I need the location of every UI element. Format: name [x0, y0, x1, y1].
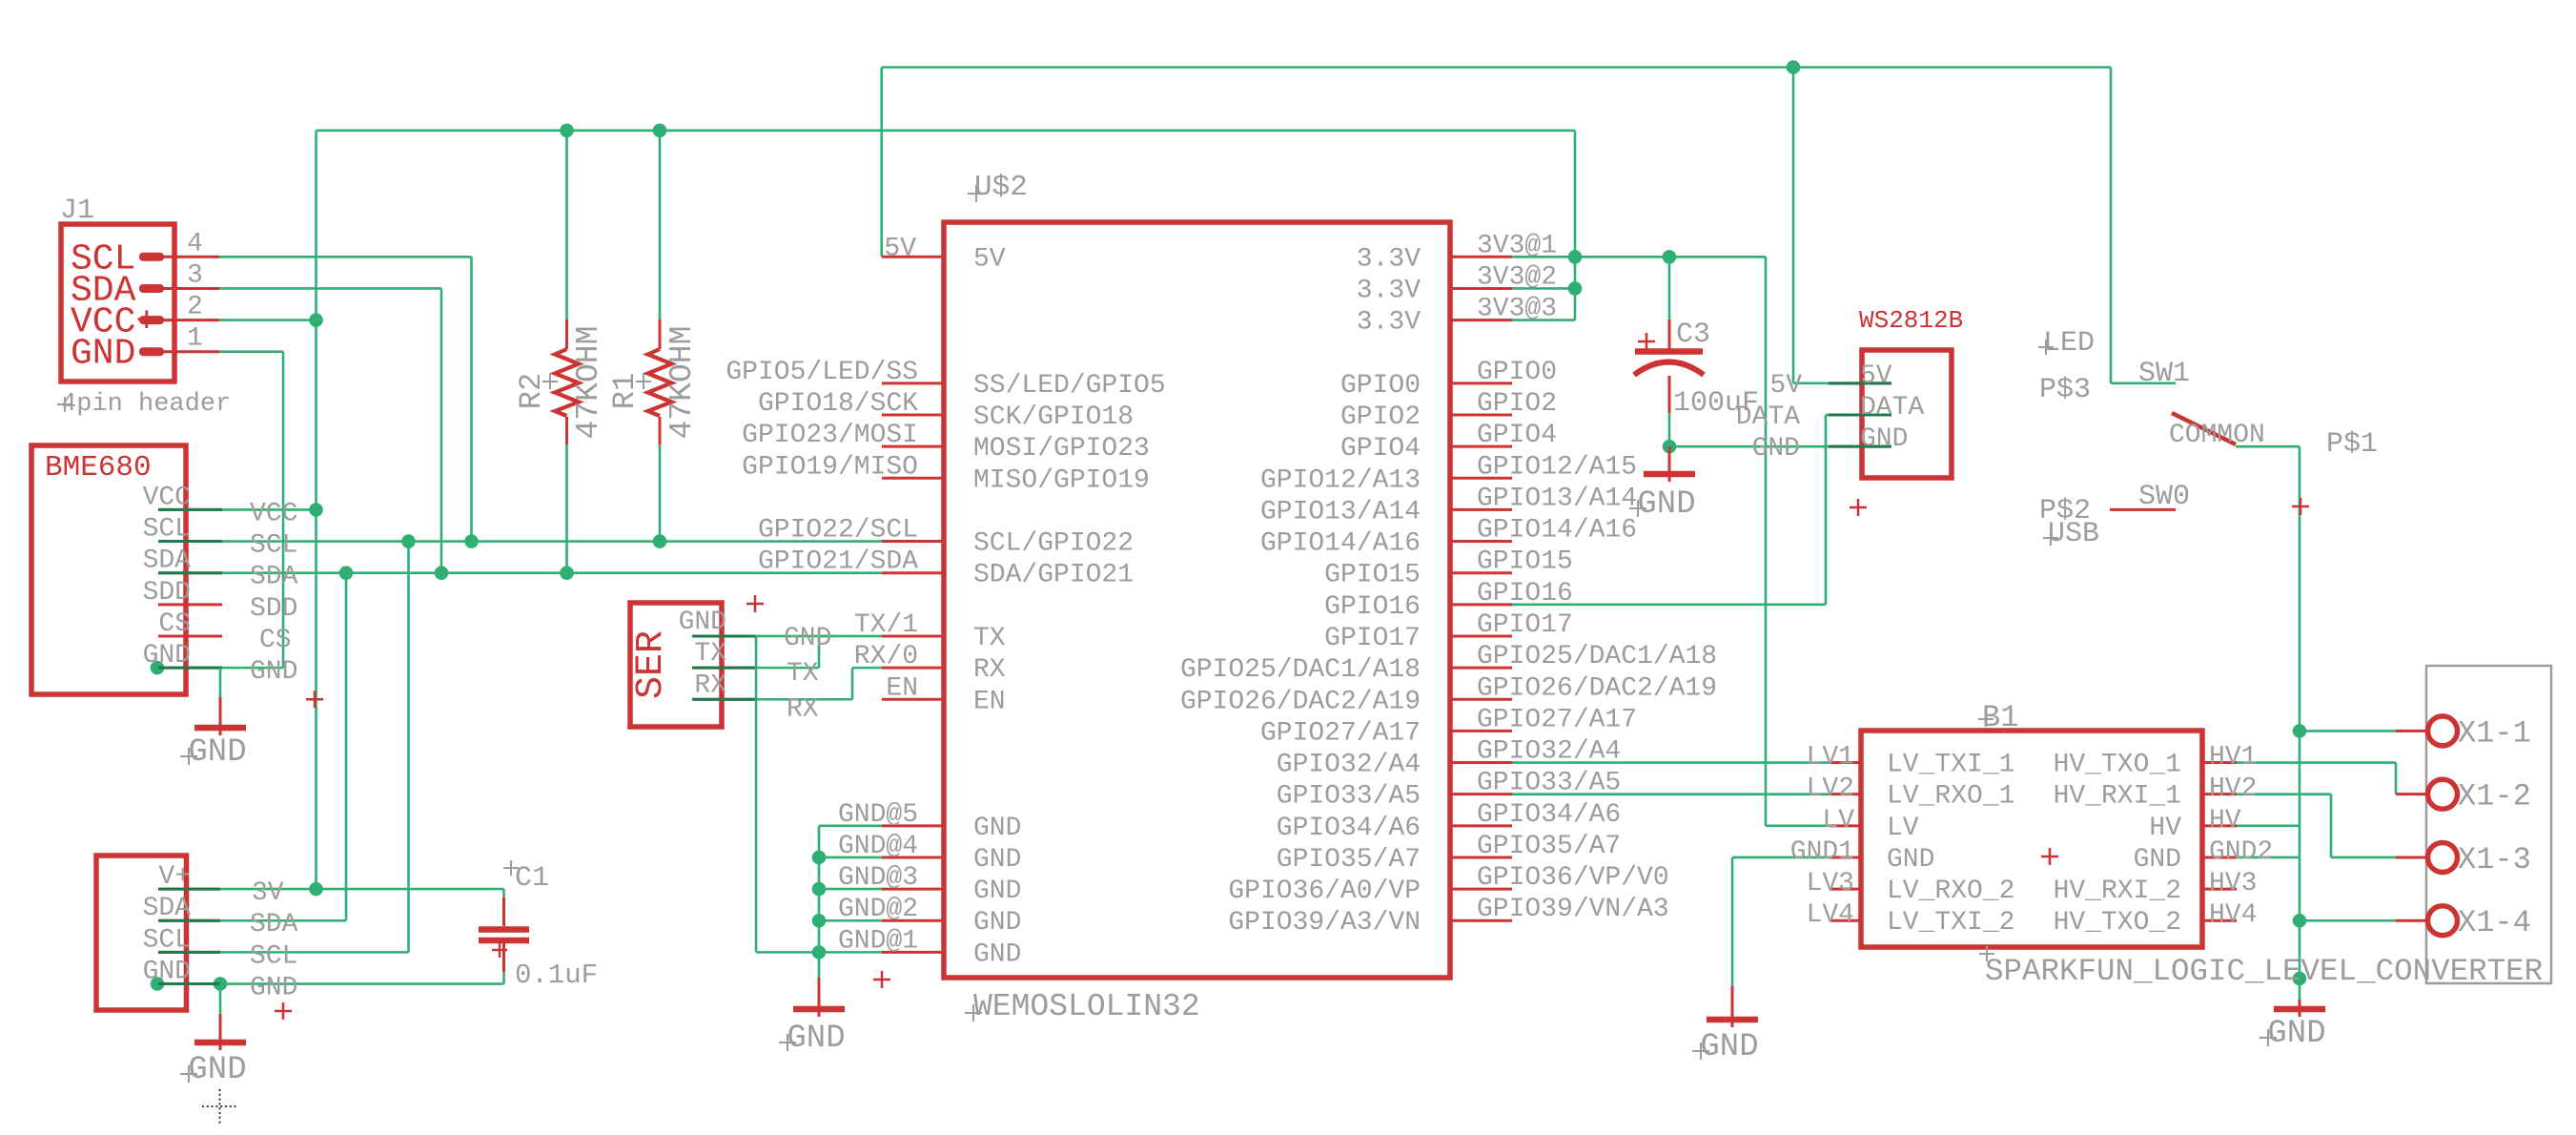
- junction P$1 at X1-1: [2293, 724, 2307, 738]
- resistor R2 47KOHM: [514, 320, 606, 444]
- wire SER TX jog up: [818, 636, 821, 668]
- junction GND@2: [812, 914, 827, 928]
- led WS2812B: [1736, 306, 1963, 516]
- wire R2 top lead to 3.3V bus: [565, 131, 568, 320]
- wire GND@4 pin: [819, 856, 882, 859]
- svg-text:GPIO33/A5: GPIO33/A5: [1277, 782, 1421, 812]
- ground symbol of P$1 bus: [2259, 1000, 2326, 1052]
- wire LED net to SW1 throw: [2111, 382, 2176, 385]
- U$2 left pin GPIO19/MISO: [882, 477, 944, 480]
- svg-text:GPIO12/A13: GPIO12/A13: [1260, 465, 1421, 495]
- svg-text:GPIO23/MOSI: GPIO23/MOSI: [742, 421, 918, 450]
- J1 pin 2 (VCC+): [139, 316, 164, 324]
- switch lever COMMON: [2172, 413, 2236, 444]
- svg-text:GPIO32/A4: GPIO32/A4: [1477, 737, 1621, 767]
- svg-text:GPIO36/A0/VP: GPIO36/A0/VP: [1228, 877, 1421, 906]
- svg-text:CS: CS: [158, 609, 191, 639]
- switch SW0 throw pin: [2110, 508, 2176, 511]
- svg-text:SDA: SDA: [250, 563, 298, 592]
- lower sensor pin SDA: [158, 919, 220, 922]
- U$2 left pin GND@3: [882, 888, 944, 891]
- junction 3.3V bus at R1: [653, 124, 667, 138]
- B1 left pin LV3: [1830, 888, 1861, 891]
- lower sensor pin SCL: [158, 951, 220, 954]
- junction SCL at R1 bottom: [653, 534, 667, 548]
- svg-text:LV_TXI_1: LV_TXI_1: [1887, 751, 2014, 780]
- svg-text:GPIO32/A4: GPIO32/A4: [1277, 751, 1421, 780]
- wire 3.3V bus horizontal: [317, 130, 1576, 133]
- wire J1 GND down to BME680 GND row: [282, 352, 285, 668]
- B1 left pin LV4: [1830, 919, 1861, 922]
- svg-text:GND: GND: [2267, 1016, 2325, 1052]
- svg-text:GPIO13/A14: GPIO13/A14: [1260, 497, 1421, 526]
- svg-text:RX: RX: [694, 671, 726, 700]
- B1 right pin GND2: [2202, 856, 2237, 858]
- svg-text:HV2: HV2: [2209, 774, 2257, 804]
- svg-text:C3: C3: [1676, 319, 1710, 351]
- ground symbol under U$2: [779, 978, 846, 1057]
- wire C3 top lead from 3V3 bus: [1668, 257, 1671, 320]
- lower sensor pin GND: [158, 982, 220, 985]
- svg-text:GND2: GND2: [2209, 837, 2273, 867]
- connector J1 (4pin header): [57, 195, 231, 419]
- svg-text:3V3@3: 3V3@3: [1477, 295, 1557, 324]
- SER pin GND: [692, 634, 755, 637]
- svg-text:DATA: DATA: [1860, 393, 1924, 423]
- svg-text:GPIO2: GPIO2: [1340, 402, 1421, 432]
- U$2 right pin 3V3@1: [1449, 256, 1512, 258]
- svg-text:VCC: VCC: [143, 483, 191, 512]
- U$2 left pin EN: [882, 698, 944, 701]
- svg-text:GPIO12/A15: GPIO12/A15: [1477, 452, 1637, 482]
- B1 left pin GND1: [1830, 856, 1861, 858]
- wire B1 GND2 right: [2237, 856, 2300, 859]
- svg-text:GND@3: GND@3: [838, 863, 918, 893]
- svg-text:1: 1: [187, 324, 203, 354]
- svg-text:LV3: LV3: [1807, 869, 1854, 898]
- svg-text:GPIO27/A17: GPIO27/A17: [1477, 705, 1637, 734]
- svg-text:GPIO19/MISO: GPIO19/MISO: [742, 452, 918, 482]
- svg-text:GPIO34/A6: GPIO34/A6: [1477, 800, 1621, 830]
- svg-text:USB: USB: [2048, 518, 2099, 550]
- svg-text:TX: TX: [694, 639, 726, 669]
- U$2 right pin GPIO4: [1449, 445, 1512, 448]
- svg-text:SDA/GPIO21: SDA/GPIO21: [973, 561, 1134, 590]
- connector X1: [2396, 666, 2551, 983]
- U$2 right pin 3V3@3: [1449, 319, 1512, 321]
- origin cross B1: [2041, 848, 2058, 865]
- svg-text:SDD: SDD: [250, 594, 297, 624]
- U$2 right pin GPIO15: [1449, 571, 1512, 574]
- svg-text:GND: GND: [188, 734, 246, 771]
- wire SER RX jog up: [851, 668, 854, 699]
- origin cross WS2812B: [1850, 499, 1867, 516]
- wire J1 GND pin right: [219, 350, 283, 353]
- svg-text:SCL: SCL: [250, 531, 297, 561]
- U$2 left pin GPIO22/SCL: [882, 540, 944, 543]
- svg-text:GND: GND: [250, 657, 297, 687]
- svg-text:HV_TXO_1: HV_TXO_1: [2054, 751, 2181, 780]
- wire HV2 jog down: [2330, 794, 2333, 857]
- svg-text:GND: GND: [71, 334, 135, 375]
- svg-text:SW0: SW0: [2138, 481, 2190, 513]
- X1 pad X1-2: [2396, 793, 2428, 795]
- svg-text:GPIO39/A3/VN: GPIO39/A3/VN: [1228, 908, 1421, 938]
- svg-text:GPIO13/A14: GPIO13/A14: [1477, 484, 1637, 513]
- junction C3 bottom / GND net: [1663, 440, 1677, 454]
- svg-text:MOSI/GPIO23: MOSI/GPIO23: [973, 434, 1150, 464]
- svg-text:LV2: LV2: [1807, 774, 1854, 804]
- junction SCL at x=494.5: [464, 534, 479, 548]
- svg-text:GPIO4: GPIO4: [1477, 421, 1557, 450]
- junction GND@3: [812, 882, 827, 897]
- svg-text:GND: GND: [973, 845, 1021, 875]
- wire R2 bottom lead to SDA: [565, 444, 568, 573]
- wire GND@3 pin: [819, 888, 882, 891]
- junction GND@4: [812, 851, 827, 865]
- svg-text:GND: GND: [973, 908, 1021, 938]
- svg-text:GPIO17: GPIO17: [1477, 610, 1573, 640]
- svg-text:GPIO22/SCL: GPIO22/SCL: [758, 516, 918, 546]
- wire X1-1 row: [2300, 730, 2396, 733]
- svg-text:X1-1: X1-1: [2458, 715, 2531, 751]
- svg-text:GPIO39/VN/A3: GPIO39/VN/A3: [1477, 895, 1669, 924]
- svg-text:GPIO17: GPIO17: [1324, 624, 1421, 653]
- svg-text:GPIO26/DAC2/A19: GPIO26/DAC2/A19: [1180, 687, 1421, 716]
- wire B1 HV1 right: [2237, 761, 2396, 764]
- capacitor C1 0.1uF: [479, 860, 598, 991]
- SER pin TX: [692, 667, 755, 670]
- U$2 left pin GPIO21/SDA: [882, 571, 944, 574]
- module B1 SPARKFUN_LOGIC_LEVEL_CONVERTER: [1790, 700, 2543, 989]
- svg-text:GPIO2: GPIO2: [1477, 389, 1557, 419]
- wire 3V3@3 pin to vertical: [1512, 319, 1575, 321]
- X1 pad X1-3: [2396, 856, 2428, 858]
- svg-text:P$3: P$3: [2039, 374, 2091, 406]
- svg-text:GPIO25/DAC1/A18: GPIO25/DAC1/A18: [1477, 642, 1717, 671]
- U$2 left pin GPIO18/SCK: [882, 414, 944, 417]
- B1 left pin LV2: [1830, 793, 1861, 795]
- svg-text:4: 4: [187, 229, 203, 258]
- wire lower sensor SDA row: [220, 919, 346, 922]
- svg-text:3V: 3V: [252, 878, 284, 908]
- wire SER TX right: [755, 667, 819, 670]
- junction 3.3V at BME680 VCC wire: [309, 503, 323, 517]
- wire GND net C3 to WS2812B GND pin: [1669, 445, 1829, 448]
- WS2812B pin 5V: [1829, 382, 1891, 384]
- wire GND bus vertical left of U$2: [818, 826, 821, 978]
- junction BME680 GND pin: [151, 661, 165, 675]
- junction SDA at x=363: [339, 566, 354, 580]
- svg-text:SDD: SDD: [143, 578, 191, 608]
- svg-text:GPIO4: GPIO4: [1340, 434, 1421, 464]
- wire C1 bottom lead green part: [502, 972, 505, 984]
- wire GPIO16 to DATA vertical: [1512, 604, 1826, 607]
- junction 3V3@1 at x=1652: [1568, 250, 1583, 264]
- wire 5V into WS2812B 5V pin: [1793, 382, 1829, 385]
- svg-text:EN: EN: [886, 673, 918, 703]
- svg-text:HV4: HV4: [2209, 900, 2257, 930]
- svg-text:GND: GND: [1637, 486, 1695, 523]
- wire GND@5 pin: [819, 825, 882, 828]
- wire J1 SDA pin right: [219, 287, 441, 290]
- U$2 left pin GPIO23/MOSI: [882, 445, 944, 448]
- wire SCL vertical to lower sensor: [407, 542, 410, 953]
- svg-text:GND: GND: [143, 958, 191, 987]
- sensor module BME680: [31, 445, 323, 708]
- U$2 right pin GPIO27/A17: [1449, 730, 1512, 733]
- svg-text:C1: C1: [515, 862, 549, 895]
- lower sensor pin V+: [158, 888, 220, 891]
- wire B1 HV2 right: [2237, 793, 2331, 795]
- wire SDA bus BME680 to U$2: [222, 571, 882, 574]
- wire B1 GND1 left: [1732, 856, 1830, 859]
- U$2 left pin 5V: [882, 256, 944, 258]
- svg-text:GPIO18/SCK: GPIO18/SCK: [758, 389, 918, 419]
- wire TX to U$2 TX pin: [819, 635, 882, 638]
- svg-text:GND@2: GND@2: [838, 895, 918, 924]
- origin cross U$2: [873, 971, 890, 988]
- svg-text:GPIO14/A16: GPIO14/A16: [1260, 529, 1421, 559]
- U$2 right pin GPIO32/A4: [1449, 761, 1512, 764]
- svg-text:GND@5: GND@5: [838, 800, 918, 830]
- wire 3.3V drop to B1 LV: [1765, 257, 1768, 826]
- svg-text:R1: R1: [607, 373, 643, 409]
- svg-text:X1-3: X1-3: [2458, 842, 2531, 877]
- ground symbol under B1: [1692, 986, 1759, 1065]
- svg-text:CS: CS: [259, 626, 292, 655]
- junction 3.3V at J1 VCC+: [309, 313, 323, 327]
- U$2 right pin GPIO12/A15: [1449, 477, 1512, 480]
- svg-text:MISO/GPIO19: MISO/GPIO19: [973, 465, 1150, 495]
- ground symbol under lower sensor: [180, 984, 247, 1088]
- wire WS2812B DATA down: [1825, 415, 1828, 605]
- wire X1-4 row: [2300, 919, 2396, 922]
- U$2 right pin GPIO36/VP/V0: [1449, 888, 1512, 891]
- wire J1 VCC+ to 3.3V vertical: [219, 319, 317, 321]
- junction SCL at x=428.5: [401, 534, 416, 548]
- svg-text:5V: 5V: [1860, 361, 1892, 391]
- svg-text:X1-4: X1-4: [2458, 905, 2531, 940]
- U$2 left pin GND@2: [882, 919, 944, 922]
- B1 right pin HV4: [2202, 919, 2237, 922]
- U$2 left pin GND@1: [882, 951, 944, 954]
- wire 5V drop to WS2812B: [1792, 68, 1795, 383]
- svg-text:3: 3: [187, 260, 203, 290]
- wire P$1 vertical bus: [2299, 446, 2301, 1000]
- U$2 right pin GPIO17: [1449, 634, 1512, 637]
- SER pin RX: [692, 698, 755, 701]
- svg-text:BME680: BME680: [45, 451, 152, 485]
- svg-text:V+: V+: [158, 862, 191, 892]
- wire BME680 GND row: [157, 667, 283, 670]
- wire lower sensor SCL row: [220, 951, 409, 954]
- wire R1 top lead to 3.3V bus: [659, 131, 662, 320]
- svg-text:GPIO0: GPIO0: [1340, 371, 1421, 401]
- wire LED net down from 5V bus: [2110, 68, 2113, 383]
- connector SER: [630, 595, 831, 727]
- svg-text:3.3V: 3.3V: [1357, 308, 1421, 338]
- wire R1 bottom lead to SCL: [659, 444, 662, 542]
- svg-text:SCL: SCL: [143, 925, 191, 955]
- svg-text:GPIO16: GPIO16: [1324, 592, 1421, 622]
- junction P$1 near ground: [2293, 972, 2307, 986]
- U$2 left pin GND@4: [882, 856, 944, 858]
- svg-text:LV: LV: [1887, 814, 1919, 843]
- J1 pin 1 (GND): [139, 347, 164, 356]
- wire 5V top bus horizontal: [882, 66, 2111, 69]
- svg-text:SER: SER: [630, 630, 673, 699]
- wire B1 HV right: [2237, 825, 2300, 828]
- U$2 right pin GPIO16: [1449, 603, 1512, 606]
- svg-text:GND: GND: [679, 608, 726, 637]
- U$2 left pin GND@5: [882, 824, 944, 827]
- wire HV1 jog down to X1-2: [2395, 763, 2398, 794]
- svg-text:LV: LV: [1822, 806, 1854, 836]
- wire 3V3@1 pin row: [1512, 256, 1766, 258]
- B1 left pin LV: [1830, 824, 1861, 827]
- B1 left pin LV1: [1830, 761, 1861, 764]
- U$2 right pin GPIO26/DAC2/A19: [1449, 698, 1512, 701]
- wire SDA vertical to lower sensor: [345, 573, 348, 921]
- lower I2C sensor module: [96, 856, 298, 1020]
- B1 right pin HV: [2202, 824, 2237, 827]
- U$2 right pin GPIO34/A6: [1449, 824, 1512, 827]
- wire SER GND to GND bus join: [756, 951, 819, 954]
- resistor R1 47KOHM: [607, 320, 700, 444]
- svg-text:GND: GND: [784, 624, 831, 653]
- svg-text:HV: HV: [2209, 806, 2241, 836]
- wire BME680 VCC to 3.3V vertical: [222, 508, 317, 511]
- wire SER GND down: [755, 636, 758, 952]
- wire J1 SCL down to SCL bus: [470, 257, 473, 541]
- B1 right pin HV2: [2202, 793, 2237, 795]
- junction SDA at R2 bottom: [560, 566, 574, 580]
- svg-text:HV: HV: [2149, 814, 2181, 843]
- svg-text:WEMOSLOLIN32: WEMOSLOLIN32: [973, 989, 1200, 1024]
- origin cross SER: [746, 595, 764, 612]
- junction lower GND at x=231: [214, 977, 228, 991]
- svg-text:LV_TXI_2: LV_TXI_2: [1887, 908, 2014, 938]
- svg-text:R2: R2: [514, 373, 549, 409]
- junction 3V3@2 at x=1652: [1568, 281, 1583, 296]
- svg-text:GPIO15: GPIO15: [1477, 547, 1573, 577]
- X1 pad X1-4: [2396, 919, 2428, 922]
- junction 3V3@1 at x=1751: [1663, 250, 1677, 264]
- svg-text:GND: GND: [2134, 845, 2181, 875]
- svg-text:HV1: HV1: [2209, 743, 2257, 773]
- svg-text:TX: TX: [973, 624, 1006, 653]
- junction 3.3V at 3V wire: [309, 882, 323, 897]
- svg-text:GPIO27/A17: GPIO27/A17: [1260, 718, 1421, 748]
- svg-text:LV_RXO_2: LV_RXO_2: [1887, 877, 2014, 906]
- svg-text:GPIO33/A5: GPIO33/A5: [1477, 769, 1621, 798]
- wire HV2 to X1-3: [2331, 856, 2396, 859]
- svg-text:U$2: U$2: [974, 171, 1028, 204]
- BME680 pin SDD: [158, 603, 222, 606]
- svg-text:0.1uF: 0.1uF: [515, 960, 598, 991]
- wire J1 SDA down to SDA bus: [440, 288, 443, 572]
- svg-text:GND: GND: [1887, 845, 1934, 875]
- ground symbol under C3: [1629, 446, 1696, 523]
- svg-text:GND: GND: [1860, 424, 1908, 454]
- wire SCL bus BME680 to U$2: [222, 540, 882, 543]
- WS2812B pin DATA: [1829, 414, 1891, 417]
- wire SER RX right: [755, 698, 852, 701]
- svg-text:GND: GND: [787, 1021, 845, 1057]
- svg-text:LV4: LV4: [1807, 900, 1854, 930]
- BME680 pin VCC: [158, 508, 222, 511]
- wire SW1 common right: [2236, 445, 2300, 448]
- svg-text:5V: 5V: [973, 244, 1006, 274]
- svg-text:RX: RX: [973, 655, 1006, 685]
- svg-text:P$1: P$1: [2326, 428, 2378, 461]
- svg-text:3.3V: 3.3V: [1357, 244, 1421, 274]
- svg-text:GPIO35/A7: GPIO35/A7: [1477, 832, 1621, 861]
- U$2 left pin TX/1: [882, 634, 944, 637]
- wire to B1 LV pin: [1766, 825, 1830, 828]
- svg-text:HV_RXI_1: HV_RXI_1: [2054, 782, 2181, 812]
- WS2812B pin GND: [1829, 445, 1891, 448]
- svg-text:47KOHM: 47KOHM: [664, 326, 700, 440]
- svg-text:LV1: LV1: [1807, 743, 1854, 773]
- svg-text:SCL/GPIO22: SCL/GPIO22: [973, 529, 1134, 559]
- svg-text:GPIO25/DAC1/A18: GPIO25/DAC1/A18: [1180, 655, 1421, 685]
- origin cross SW1: [2292, 498, 2309, 515]
- svg-text:GND: GND: [973, 939, 1021, 969]
- svg-text:GND: GND: [973, 877, 1021, 906]
- svg-text:5V: 5V: [884, 234, 916, 263]
- svg-text:GND: GND: [250, 974, 297, 1003]
- U$2 right pin GPIO33/A5: [1449, 793, 1512, 795]
- svg-text:3V3@1: 3V3@1: [1477, 231, 1557, 260]
- wire DATA into WS2812B pin: [1826, 414, 1829, 417]
- svg-text:LV_RXO_1: LV_RXO_1: [1887, 782, 2014, 812]
- wire lower sensor GND row: [157, 982, 504, 985]
- U$2 right pin GPIO35/A7: [1449, 856, 1512, 858]
- svg-text:GPIO16: GPIO16: [1477, 579, 1573, 609]
- svg-text:GND1: GND1: [1790, 837, 1854, 867]
- wire 5V drop to U$2 5V pin: [880, 68, 883, 258]
- svg-text:COMMON: COMMON: [2169, 421, 2265, 450]
- wire 3.3V left vertical to 3V pin: [315, 131, 317, 889]
- BME680 pin CS: [158, 634, 222, 637]
- svg-text:RX: RX: [787, 694, 819, 724]
- wire GND@2 pin: [819, 919, 882, 922]
- wire GPIO33/A5 to B1 LV2: [1512, 793, 1830, 795]
- wire RX to U$2 RX pin: [852, 667, 882, 670]
- polarity plus C3: [1638, 333, 1655, 350]
- svg-text:GND: GND: [1752, 434, 1800, 464]
- U$2 right pin GPIO13/A14: [1449, 508, 1512, 511]
- svg-text:3.3V: 3.3V: [1357, 276, 1421, 305]
- svg-text:GPIO0: GPIO0: [1477, 358, 1557, 387]
- svg-text:TX: TX: [787, 659, 819, 689]
- junction GND@1: [812, 945, 827, 960]
- svg-text:SCL: SCL: [143, 515, 191, 545]
- svg-text:DATA: DATA: [1736, 402, 1800, 432]
- svg-text:B1: B1: [1982, 700, 2018, 735]
- svg-text:SS/LED/GPIO5: SS/LED/GPIO5: [973, 371, 1166, 401]
- junction lower GND at pin: [151, 977, 165, 991]
- svg-text:GND: GND: [973, 814, 1021, 843]
- U$2 right pin GPIO0: [1449, 382, 1512, 384]
- wire GPIO32/A4 to B1 LV1: [1512, 761, 1830, 764]
- U$2 right pin GPIO39/VN/A3: [1449, 919, 1512, 922]
- svg-text:RX/0: RX/0: [854, 642, 918, 671]
- svg-text:2: 2: [187, 293, 203, 322]
- X1 pad X1-1: [2396, 730, 2428, 733]
